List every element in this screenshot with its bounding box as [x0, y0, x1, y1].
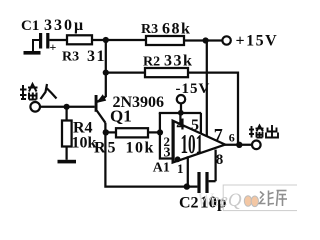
wire input to base [40, 106, 95, 108]
node output [236, 142, 242, 148]
node collector/R5 [103, 129, 109, 135]
svg-text:R3: R3 [141, 22, 158, 37]
terminal output [252, 141, 261, 150]
terminal +15V [222, 36, 230, 44]
hanzi shu (输) [20, 84, 38, 100]
watermark WeeQoo [197, 190, 259, 211]
node emitter junction top [103, 37, 109, 43]
resistor R3 31 [67, 35, 92, 44]
wire pin8 down [214, 150, 216, 182]
wire collector down and bottom rail [105, 123, 197, 187]
svg-text:8: 8 [216, 152, 224, 168]
svg-text:330μ: 330μ [44, 17, 85, 34]
svg-text:A1: A1 [153, 161, 170, 176]
svg-text:C2: C2 [179, 195, 199, 212]
node +15V rail junction [203, 37, 209, 43]
svg-text:Q1: Q1 [110, 107, 132, 126]
node -15V bar [178, 110, 184, 116]
wire box left side [160, 113, 173, 159]
node R5 / pin2 [157, 129, 163, 135]
resistor R4 10k [62, 107, 72, 160]
wire pin5 drop [200, 113, 202, 134]
label 101 [181, 130, 204, 160]
hanzi wei (维) [260, 191, 275, 207]
terminal input [30, 102, 40, 112]
wire -15V down [180, 103, 182, 113]
ground (under R4) [58, 160, 77, 164]
node R2 junction [103, 70, 109, 76]
svg-text:3: 3 [164, 146, 171, 161]
svg-text:68k: 68k [162, 21, 191, 38]
wire V+ supply down to op-amp pin 7 [206, 41, 208, 137]
wire pin1 down [187, 156, 189, 186]
svg-text:31: 31 [87, 48, 106, 65]
svg-text:33k: 33k [164, 53, 193, 70]
wire top rail [49, 39, 146, 41]
resistor R2 33k [106, 68, 188, 77]
terminal -15V [177, 95, 185, 103]
wire pin4 drop [179, 113, 181, 125]
svg-text:C1: C1 [21, 18, 39, 34]
capacitor C1 [39, 33, 57, 54]
resistor R3 68k [146, 36, 184, 45]
label output (hanzi) [249, 125, 278, 138]
watermark weiku (hanzi) [260, 191, 288, 207]
svg-text:+: + [50, 40, 57, 54]
watermark box [223, 185, 299, 211]
svg-text:10k: 10k [126, 140, 155, 157]
svg-text:+15V: +15V [236, 33, 279, 50]
wire output [225, 144, 252, 146]
hanzi shu (输) [249, 126, 264, 138]
svg-text:1: 1 [177, 161, 184, 176]
wire feedback from R2 to output [188, 73, 238, 145]
svg-text:10k: 10k [72, 135, 97, 152]
svg-text:R5: R5 [94, 140, 118, 157]
capacitor C2 [197, 172, 215, 193]
svg-text:eeQ: eeQ [211, 190, 242, 211]
node bottom rail / pin1 [184, 183, 190, 189]
svg-text:4: 4 [177, 115, 186, 134]
svg-text:5: 5 [191, 117, 199, 134]
hanzi ru (入) [41, 84, 57, 99]
svg-text:-15V: -15V [176, 81, 211, 97]
wire op-amp top bar [159, 112, 201, 114]
node pin1 on triangle edge [175, 156, 181, 162]
hanzi ku (库) [277, 191, 288, 207]
svg-text:R2: R2 [143, 55, 160, 70]
node input junction [64, 104, 70, 110]
wire emitter vertical [105, 40, 107, 97]
svg-text:R3: R3 [62, 50, 79, 65]
resistor R5 10k [106, 128, 160, 137]
transistor Q1 2N3906 [95, 94, 107, 123]
ground (under C1) [24, 40, 41, 55]
svg-text:6: 6 [229, 131, 235, 145]
svg-text:7: 7 [214, 125, 223, 145]
wire to +15V [184, 39, 222, 41]
op-amp U1 101 [173, 121, 226, 163]
hanzi chu (出) [266, 125, 278, 138]
label input (hanzi) [20, 84, 57, 100]
